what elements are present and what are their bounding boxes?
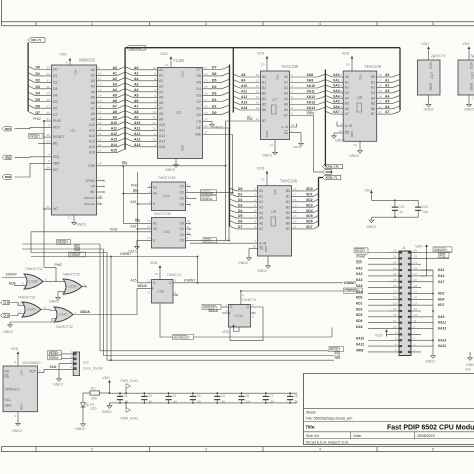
svg-text:D6: D6 xyxy=(212,72,217,76)
svg-text:12: 12 xyxy=(204,72,208,76)
svg-text:A5: A5 xyxy=(385,100,389,104)
svg-text:RESET: RESET xyxy=(30,134,41,138)
bus A[0..14] vertical right of U1 xyxy=(124,48,126,150)
wire D0 from data bus to U9 xyxy=(230,187,264,193)
svg-text:KA8: KA8 xyxy=(356,325,363,329)
svg-text:11: 11 xyxy=(378,110,381,114)
svg-text:XA6: XA6 xyxy=(333,105,340,109)
svg-text:2: 2 xyxy=(340,73,342,77)
svg-text:XD5: XD5 xyxy=(306,214,313,218)
svg-text:SCL: SCL xyxy=(5,398,12,402)
svg-text:12: 12 xyxy=(98,82,102,86)
svg-text:D0: D0 xyxy=(53,68,58,72)
svg-text:KD7: KD7 xyxy=(438,303,445,307)
svg-text:XA9: XA9 xyxy=(307,79,314,83)
svg-text:11: 11 xyxy=(256,117,259,121)
sheet frame bottom border xyxy=(2,447,474,452)
svg-text:KD6: KD6 xyxy=(356,319,363,323)
svg-text:A15: A15 xyxy=(130,200,136,204)
wire A8 from U1 to bus xyxy=(91,110,125,116)
svg-text:XA2: XA2 xyxy=(333,84,340,88)
wire XA13 from U7 to XA bus xyxy=(284,101,326,107)
wire J1 left pin 28 xyxy=(356,272,399,276)
svg-text:B7: B7 xyxy=(262,119,266,123)
wire A15 to U4A xyxy=(130,172,156,283)
wire U18B output to U18A xyxy=(43,277,56,281)
resistor R1 330 xyxy=(83,387,110,401)
svg-text:25: 25 xyxy=(414,278,418,282)
wire U4B enable to ground xyxy=(128,236,156,253)
svg-text:74HC74: 74HC74 xyxy=(167,272,182,277)
wire SO to U1 xyxy=(44,166,58,172)
svg-text:A6: A6 xyxy=(134,99,139,103)
hier label into U18D lower xyxy=(1,309,25,317)
wire A7 from bus to U2 xyxy=(125,104,163,110)
wire J1 left pin 24 xyxy=(356,284,399,288)
svg-text:RAMWE: RAMWE xyxy=(202,191,214,195)
svg-text:IOWAIT: IOWAIT xyxy=(70,253,81,257)
wire J1 left pin 10 xyxy=(356,325,399,329)
svg-text:3: 3 xyxy=(70,359,72,363)
svg-text:XD2: XD2 xyxy=(306,198,313,202)
hier label RDY xyxy=(2,123,61,131)
svg-text:A12: A12 xyxy=(89,134,95,138)
wire XD1 from U9 to XD bus xyxy=(286,192,319,198)
svg-text:18: 18 xyxy=(98,115,102,119)
svg-text:U8: U8 xyxy=(357,95,363,100)
svg-text:9: 9 xyxy=(414,325,416,329)
svg-text:A11: A11 xyxy=(111,126,117,130)
svg-text:IRQ: IRQ xyxy=(335,351,341,355)
svg-text:5: 5 xyxy=(432,22,434,26)
wire A2 from bus to U2 xyxy=(125,77,163,83)
svg-text:NMI: NMI xyxy=(53,161,59,165)
svg-text:D[0..7]: D[0..7] xyxy=(31,38,40,42)
svg-text:A10: A10 xyxy=(134,121,140,125)
wire DCLK to U10A clock xyxy=(209,309,231,315)
svg-text:A14: A14 xyxy=(89,145,95,149)
svg-text:6: 6 xyxy=(154,88,156,92)
svg-text:16: 16 xyxy=(293,198,297,202)
svg-text:2: 2 xyxy=(91,448,93,452)
svg-text:VCC: VCC xyxy=(469,62,473,70)
svg-text:1: 1 xyxy=(154,143,156,147)
no-connect VP pin xyxy=(90,184,105,188)
svg-text:KD3: KD3 xyxy=(356,307,363,311)
capacitor C4 xyxy=(190,392,201,403)
svg-text:5: 5 xyxy=(254,203,256,207)
svg-text:13: 13 xyxy=(98,88,102,92)
svg-text:U18D: U18D xyxy=(27,308,36,312)
wire D3 from U2 to data bus xyxy=(197,91,230,97)
svg-text:7: 7 xyxy=(98,177,100,181)
svg-text:A14: A14 xyxy=(134,143,140,147)
svg-text:74HC245: 74HC245 xyxy=(364,64,382,69)
power VDD at U7 xyxy=(257,52,269,72)
svg-text:35: 35 xyxy=(414,249,418,253)
wire A6 from bus to U2 xyxy=(125,99,163,105)
svg-text:XRW: XRW xyxy=(356,348,363,352)
wire U10A inverted output no-connect xyxy=(251,312,256,318)
svg-text:19: 19 xyxy=(98,121,102,125)
wire U7 DIR pin xyxy=(281,123,296,129)
wire J1 right pin 21 xyxy=(411,290,445,296)
wire D2 from data bus to U9 xyxy=(230,198,264,204)
svg-text:GND2: GND2 xyxy=(213,126,223,130)
wire A0 from U1 to bus xyxy=(91,66,125,72)
svg-text:GND2: GND2 xyxy=(464,108,474,112)
svg-text:20: 20 xyxy=(346,63,350,67)
svg-text:IORD: IORD xyxy=(204,239,212,243)
svg-text:O2: O2 xyxy=(179,197,184,201)
wire A8 from bus to U7 xyxy=(233,73,266,79)
svg-text:.03u: .03u xyxy=(422,210,428,214)
svg-text:GND2: GND2 xyxy=(3,330,13,334)
svg-text:A13: A13 xyxy=(159,139,165,143)
svg-text:34: 34 xyxy=(393,255,397,259)
svg-text:25: 25 xyxy=(98,148,102,152)
svg-text:13: 13 xyxy=(378,100,382,104)
svg-text:15: 15 xyxy=(98,99,102,103)
svg-text:D2: D2 xyxy=(36,79,41,83)
wire D7 from U2 to data bus xyxy=(197,66,230,72)
wire A11 from U1 to bus xyxy=(89,126,125,132)
wire U8 DIR pin xyxy=(337,122,352,129)
svg-text:XA[0..14]: XA[0..14] xyxy=(326,165,339,169)
capacitor C30 xyxy=(415,200,428,217)
svg-text:6: 6 xyxy=(252,314,254,318)
wire J1 left pin 12 xyxy=(356,319,399,323)
svg-text:71256: 71256 xyxy=(173,58,185,63)
svg-text:A3: A3 xyxy=(385,89,389,93)
svg-text:D6: D6 xyxy=(238,220,242,224)
title block xyxy=(304,374,474,445)
wire A2 from U8 to A bus xyxy=(371,84,400,90)
svg-text:10: 10 xyxy=(187,231,191,235)
svg-text:26: 26 xyxy=(153,137,157,141)
svg-text:7: 7 xyxy=(414,331,416,335)
svg-text:A7: A7 xyxy=(345,112,349,116)
svg-text:15: 15 xyxy=(414,307,418,311)
no-connect ML pin xyxy=(90,190,105,194)
svg-text:B7: B7 xyxy=(286,227,290,231)
capacitor C6 xyxy=(238,392,249,403)
svg-text:4: 4 xyxy=(319,22,321,26)
svg-text:XA4: XA4 xyxy=(333,94,340,98)
ground at U8 xyxy=(349,141,362,158)
svg-text:D7: D7 xyxy=(212,66,217,70)
svg-text:15: 15 xyxy=(204,85,208,89)
svg-text:B2: B2 xyxy=(371,86,375,90)
wire PHI2 to U1 pin 37 xyxy=(33,117,61,123)
svg-text:8: 8 xyxy=(254,220,256,224)
wire U18A output no-connect xyxy=(82,282,87,287)
svg-text:A1: A1 xyxy=(345,80,349,84)
wire D5 from U2 to data bus xyxy=(197,79,230,85)
svg-text:VDD: VDD xyxy=(375,334,383,338)
svg-text:13: 13 xyxy=(293,214,297,218)
svg-text:6: 6 xyxy=(45,277,47,281)
svg-text:1: 1 xyxy=(39,368,41,372)
wire J1 left pin 6 xyxy=(356,336,399,340)
wire XA3 from XA bus to U8 xyxy=(325,89,349,95)
svg-text:4: 4 xyxy=(242,294,244,298)
wire PHI2 branch to U4B xyxy=(31,228,152,253)
svg-text:VCC: VCC xyxy=(20,370,24,376)
svg-text:PWR_FLAG: PWR_FLAG xyxy=(121,417,139,421)
svg-text:U2: U2 xyxy=(176,110,182,115)
ground at U1 xyxy=(68,215,86,227)
wire CLK to J13 pin 4 xyxy=(44,365,73,369)
ground at X1 xyxy=(12,412,22,433)
svg-text:.1u: .1u xyxy=(197,399,202,403)
svg-text:A2: A2 xyxy=(259,200,263,204)
svg-text:PHI1out: PHI1out xyxy=(84,202,95,206)
svg-text:10: 10 xyxy=(153,66,157,70)
svg-text:B1: B1 xyxy=(371,80,375,84)
svg-text:23: 23 xyxy=(153,126,157,130)
svg-text:A11: A11 xyxy=(89,128,95,132)
wire A10 from bus to U2 xyxy=(125,121,165,127)
svg-text:3: 3 xyxy=(149,189,151,193)
wire IOWAIT long xyxy=(198,281,357,285)
svg-text:6: 6 xyxy=(291,95,293,99)
wire J1 right pin 5 xyxy=(411,336,446,342)
svg-text:U1: U1 xyxy=(70,128,76,133)
svg-text:7: 7 xyxy=(472,97,474,101)
svg-text:D0: D0 xyxy=(212,111,217,115)
svg-text:A9: A9 xyxy=(134,115,139,119)
svg-text:A9: A9 xyxy=(91,117,95,121)
svg-text:KA14: KA14 xyxy=(438,338,446,342)
wire J1 left pin 2 xyxy=(356,348,399,352)
bus entry and wire D1 to U1 xyxy=(28,72,57,78)
svg-text:U7: U7 xyxy=(272,97,278,102)
svg-text:PHI2: PHI2 xyxy=(33,117,41,121)
svg-text:2: 2 xyxy=(149,183,151,187)
wire A15 to U4B A0 xyxy=(130,225,157,231)
ground at D1 xyxy=(75,421,85,431)
svg-text:Can: Can xyxy=(465,368,471,372)
svg-text:XD[0..7]: XD[0..7] xyxy=(326,176,337,180)
hier label D[0..7] xyxy=(28,38,45,43)
svg-text:C5: C5 xyxy=(221,394,225,398)
svg-text:NC: NC xyxy=(53,207,59,211)
power VDD at C29 xyxy=(364,189,373,198)
svg-text:11: 11 xyxy=(204,66,207,70)
svg-text:GND2: GND2 xyxy=(165,168,175,172)
svg-text:A8: A8 xyxy=(113,110,118,114)
svg-text:A15: A15 xyxy=(111,148,117,152)
svg-text:8: 8 xyxy=(395,331,397,335)
ground at J1 xyxy=(425,353,435,364)
IC U2 SRAM 71256 xyxy=(158,58,203,159)
svg-text:15: 15 xyxy=(378,89,382,93)
svg-text:11: 11 xyxy=(44,305,47,309)
wire A14 from bus to U2 xyxy=(125,143,165,149)
svg-text:IRQ: IRQ xyxy=(440,254,446,258)
svg-text:13: 13 xyxy=(18,309,22,313)
wire PHI2 to U4A xyxy=(131,183,157,189)
svg-text:7: 7 xyxy=(431,97,433,101)
svg-text:D5: D5 xyxy=(212,79,217,83)
svg-text:74HCT139: 74HCT139 xyxy=(158,176,175,180)
svg-text:4: 4 xyxy=(187,182,189,186)
led D1 xyxy=(81,393,98,421)
svg-text:GND2: GND2 xyxy=(12,429,22,433)
svg-text:A2: A2 xyxy=(134,77,139,81)
svg-text:NMI: NMI xyxy=(356,261,362,265)
svg-text:3: 3 xyxy=(226,309,228,313)
svg-text:5: 5 xyxy=(291,90,293,94)
svg-text:A5: A5 xyxy=(159,95,163,99)
svg-text:1: 1 xyxy=(414,348,416,352)
svg-text:XA3: XA3 xyxy=(333,89,340,93)
svg-text:NMI: NMI xyxy=(74,248,80,252)
svg-text:KA0: KA0 xyxy=(356,266,363,270)
svg-text:16: 16 xyxy=(98,104,102,108)
svg-text:A10: A10 xyxy=(89,123,95,127)
svg-text:KA12: KA12 xyxy=(356,342,364,346)
svg-text:IRQ: IRQ xyxy=(5,156,11,160)
svg-text:A5: A5 xyxy=(134,93,139,97)
svg-text:74AHCT32: 74AHCT32 xyxy=(18,296,36,300)
svg-text:C4: C4 xyxy=(197,394,201,398)
svg-text:XA14: XA14 xyxy=(307,106,316,110)
wire PHI2out no-connect xyxy=(84,194,102,206)
svg-text:8: 8 xyxy=(14,360,16,364)
svg-text:A15: A15 xyxy=(130,225,136,229)
wire D0 from U2 to data bus xyxy=(197,111,230,117)
capacitor C29 xyxy=(372,198,419,219)
wire U18C lower input xyxy=(10,319,57,323)
svg-text:VCC: VCC xyxy=(429,62,433,70)
svg-text:7: 7 xyxy=(154,82,156,86)
svg-text:VDD: VDD xyxy=(257,167,265,171)
svg-text:20: 20 xyxy=(261,63,265,67)
svg-text:A7: A7 xyxy=(113,104,118,108)
svg-text:A4: A4 xyxy=(159,90,163,94)
svg-text:KiCad E.D.A. kicad (7.0.0): KiCad E.D.A. kicad (7.0.0) xyxy=(306,440,348,444)
svg-text:5: 5 xyxy=(187,188,189,192)
svg-text:A0: A0 xyxy=(345,75,349,79)
svg-text:10: 10 xyxy=(155,272,159,276)
svg-text:CLK: CLK xyxy=(50,365,58,369)
power VDD at X1 xyxy=(11,347,20,366)
svg-text:A4: A4 xyxy=(284,97,288,101)
svg-text:GND2: GND2 xyxy=(238,261,248,265)
svg-text:XD6: XD6 xyxy=(306,220,313,224)
svg-text:A7: A7 xyxy=(385,110,389,114)
svg-text:A6: A6 xyxy=(259,222,263,226)
svg-text:24: 24 xyxy=(98,143,102,147)
svg-text:2: 2 xyxy=(63,277,65,281)
svg-text:D3: D3 xyxy=(197,93,202,97)
svg-text:D7: D7 xyxy=(197,68,202,72)
svg-text:3: 3 xyxy=(340,78,342,82)
svg-text:20: 20 xyxy=(261,178,265,182)
svg-text:A1: A1 xyxy=(91,73,95,77)
svg-text:74AHCT32: 74AHCT32 xyxy=(62,273,80,277)
svg-text:XRW: XRW xyxy=(307,111,316,115)
wire A14 from bus to U7 xyxy=(233,106,266,112)
svg-text:RDY: RDY xyxy=(5,127,11,131)
wire A15 from U1 to bus xyxy=(89,148,125,154)
svg-text:D2: D2 xyxy=(53,81,58,85)
power VDD at U9 xyxy=(257,167,269,186)
wire U8 CE to ground xyxy=(332,129,350,143)
hier label NMI xyxy=(2,159,59,179)
svg-text:RW: RW xyxy=(135,219,140,223)
svg-text:14: 14 xyxy=(98,93,102,97)
svg-text:O1: O1 xyxy=(179,191,184,195)
bus entry and wire D3 to U1 xyxy=(28,85,57,91)
svg-text:File: 6502fast3cpu.kicad_sch: File: 6502fast3cpu.kicad_sch xyxy=(306,417,352,421)
svg-text:IOWNT: IOWNT xyxy=(49,356,59,360)
svg-text:A4: A4 xyxy=(385,94,389,98)
wire U2 CS to ground xyxy=(196,117,223,129)
wire IOWNT long top xyxy=(31,252,198,283)
svg-text:21: 21 xyxy=(414,290,418,294)
wire J1 right pin 13 xyxy=(411,313,445,319)
svg-text:74HCT139: 74HCT139 xyxy=(154,212,171,216)
svg-text:GND2: GND2 xyxy=(262,154,272,158)
svg-text:D4: D4 xyxy=(212,85,217,89)
wire SYNC no-connect xyxy=(86,177,106,183)
svg-text:PHI2: PHI2 xyxy=(55,263,63,267)
svg-text:CLK: CLK xyxy=(9,281,17,285)
svg-text:D0: D0 xyxy=(238,187,242,191)
svg-text:IOwait: IOwait xyxy=(356,255,365,259)
wire IOWNT to U18B xyxy=(2,272,26,277)
svg-text:PD: PD xyxy=(5,375,10,379)
svg-text:17: 17 xyxy=(256,79,260,83)
wire XD4 from U9 to XD bus xyxy=(286,209,319,215)
svg-text:4: 4 xyxy=(24,273,26,277)
svg-text:#DMRESET: #DMRESET xyxy=(174,335,191,339)
svg-text:B4: B4 xyxy=(286,211,290,215)
svg-text:A2: A2 xyxy=(113,77,118,81)
svg-text:KA3: KA3 xyxy=(356,278,363,282)
wire A0 from bus to U2 xyxy=(125,66,163,72)
svg-text:14: 14 xyxy=(147,225,151,229)
svg-text:18: 18 xyxy=(378,73,382,77)
svg-text:XA13: XA13 xyxy=(438,344,446,348)
svg-text:32: 32 xyxy=(47,72,51,76)
svg-text:D5: D5 xyxy=(36,98,41,102)
svg-text:RW: RW xyxy=(247,117,253,121)
wire PHI2 to U18A xyxy=(44,263,65,282)
wire IOWNT to J13 pin 2 long xyxy=(110,256,112,362)
svg-text:3: 3 xyxy=(414,342,416,346)
svg-text:D0: D0 xyxy=(197,113,202,117)
svg-text:A12: A12 xyxy=(134,132,140,136)
svg-text:23: 23 xyxy=(414,284,418,288)
svg-text:GND2: GND2 xyxy=(75,427,85,431)
wire D4 from data bus to U9 xyxy=(230,209,264,215)
svg-text:35: 35 xyxy=(47,205,51,209)
svg-text:9: 9 xyxy=(175,279,177,283)
svg-text:GND2: GND2 xyxy=(293,145,302,149)
svg-text:7: 7 xyxy=(291,101,293,105)
svg-text:U10A: U10A xyxy=(234,314,244,318)
wire J1 left pin 16 xyxy=(356,307,399,311)
svg-text:29: 29 xyxy=(47,91,51,95)
wire CLK from X1 OUT xyxy=(38,368,45,372)
svg-text:9: 9 xyxy=(98,66,100,70)
wire A7 from U1 to bus xyxy=(91,104,125,110)
svg-text:XD7: XD7 xyxy=(306,225,313,229)
